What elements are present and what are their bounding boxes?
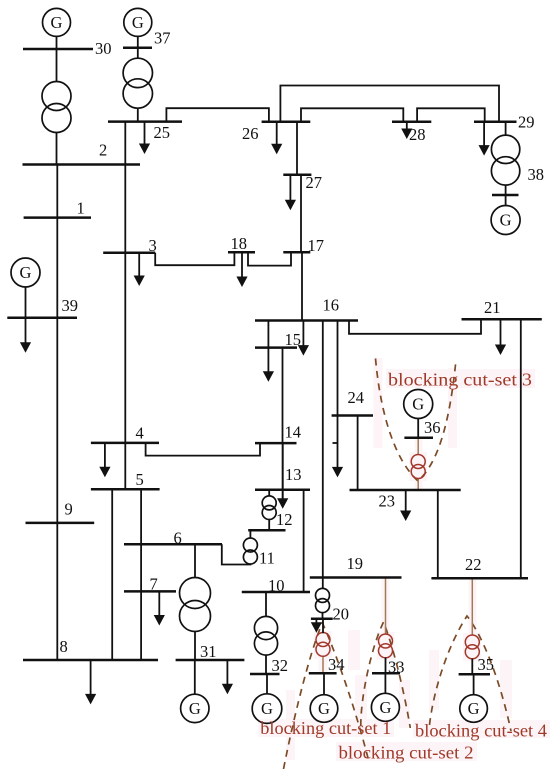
svg-text:25: 25: [154, 123, 171, 142]
svg-text:G: G: [412, 395, 424, 414]
svg-text:blocking cut-set 3: blocking cut-set 3: [388, 369, 532, 389]
svg-text:30: 30: [95, 39, 112, 58]
svg-text:1: 1: [77, 199, 85, 218]
svg-text:11: 11: [259, 549, 275, 568]
svg-text:G: G: [189, 699, 201, 718]
svg-text:G: G: [379, 698, 391, 717]
svg-text:15: 15: [285, 330, 302, 349]
svg-text:9: 9: [65, 500, 73, 519]
svg-text:20: 20: [333, 605, 350, 624]
svg-text:G: G: [318, 699, 330, 718]
svg-text:39: 39: [62, 296, 79, 315]
svg-text:37: 37: [154, 29, 171, 48]
svg-text:18: 18: [231, 234, 248, 253]
svg-text:6: 6: [174, 529, 182, 548]
svg-text:blocking cut-set 1: blocking cut-set 1: [260, 718, 391, 738]
svg-text:23: 23: [379, 492, 396, 511]
svg-text:38: 38: [528, 165, 545, 184]
svg-text:G: G: [20, 263, 32, 282]
svg-text:G: G: [132, 13, 144, 32]
svg-text:blocking cut-set 2: blocking cut-set 2: [339, 742, 474, 762]
svg-text:4: 4: [136, 424, 144, 443]
svg-text:14: 14: [285, 423, 302, 442]
svg-text:19: 19: [347, 554, 364, 573]
svg-text:31: 31: [200, 642, 217, 661]
svg-text:24: 24: [348, 388, 365, 407]
svg-text:34: 34: [328, 655, 345, 674]
svg-text:blocking cut-set 4: blocking cut-set 4: [415, 721, 547, 741]
svg-text:8: 8: [60, 637, 68, 656]
svg-text:16: 16: [323, 296, 340, 315]
svg-text:13: 13: [285, 465, 302, 484]
svg-text:32: 32: [272, 656, 289, 675]
svg-text:G: G: [51, 13, 63, 32]
svg-text:3: 3: [149, 236, 157, 255]
svg-text:35: 35: [478, 655, 495, 674]
svg-text:7: 7: [150, 575, 158, 594]
svg-text:5: 5: [136, 470, 144, 489]
svg-text:21: 21: [484, 298, 501, 317]
svg-text:27: 27: [306, 173, 323, 192]
svg-text:33: 33: [388, 658, 405, 677]
svg-text:12: 12: [276, 510, 293, 529]
svg-text:G: G: [261, 699, 273, 718]
svg-text:22: 22: [465, 555, 482, 574]
svg-text:26: 26: [242, 124, 259, 143]
svg-text:G: G: [468, 699, 480, 718]
svg-text:G: G: [500, 211, 512, 230]
svg-text:29: 29: [518, 113, 535, 132]
svg-text:17: 17: [308, 236, 325, 255]
svg-text:2: 2: [99, 141, 107, 160]
svg-text:36: 36: [424, 418, 441, 437]
svg-text:28: 28: [409, 125, 426, 144]
svg-text:10: 10: [268, 576, 285, 595]
